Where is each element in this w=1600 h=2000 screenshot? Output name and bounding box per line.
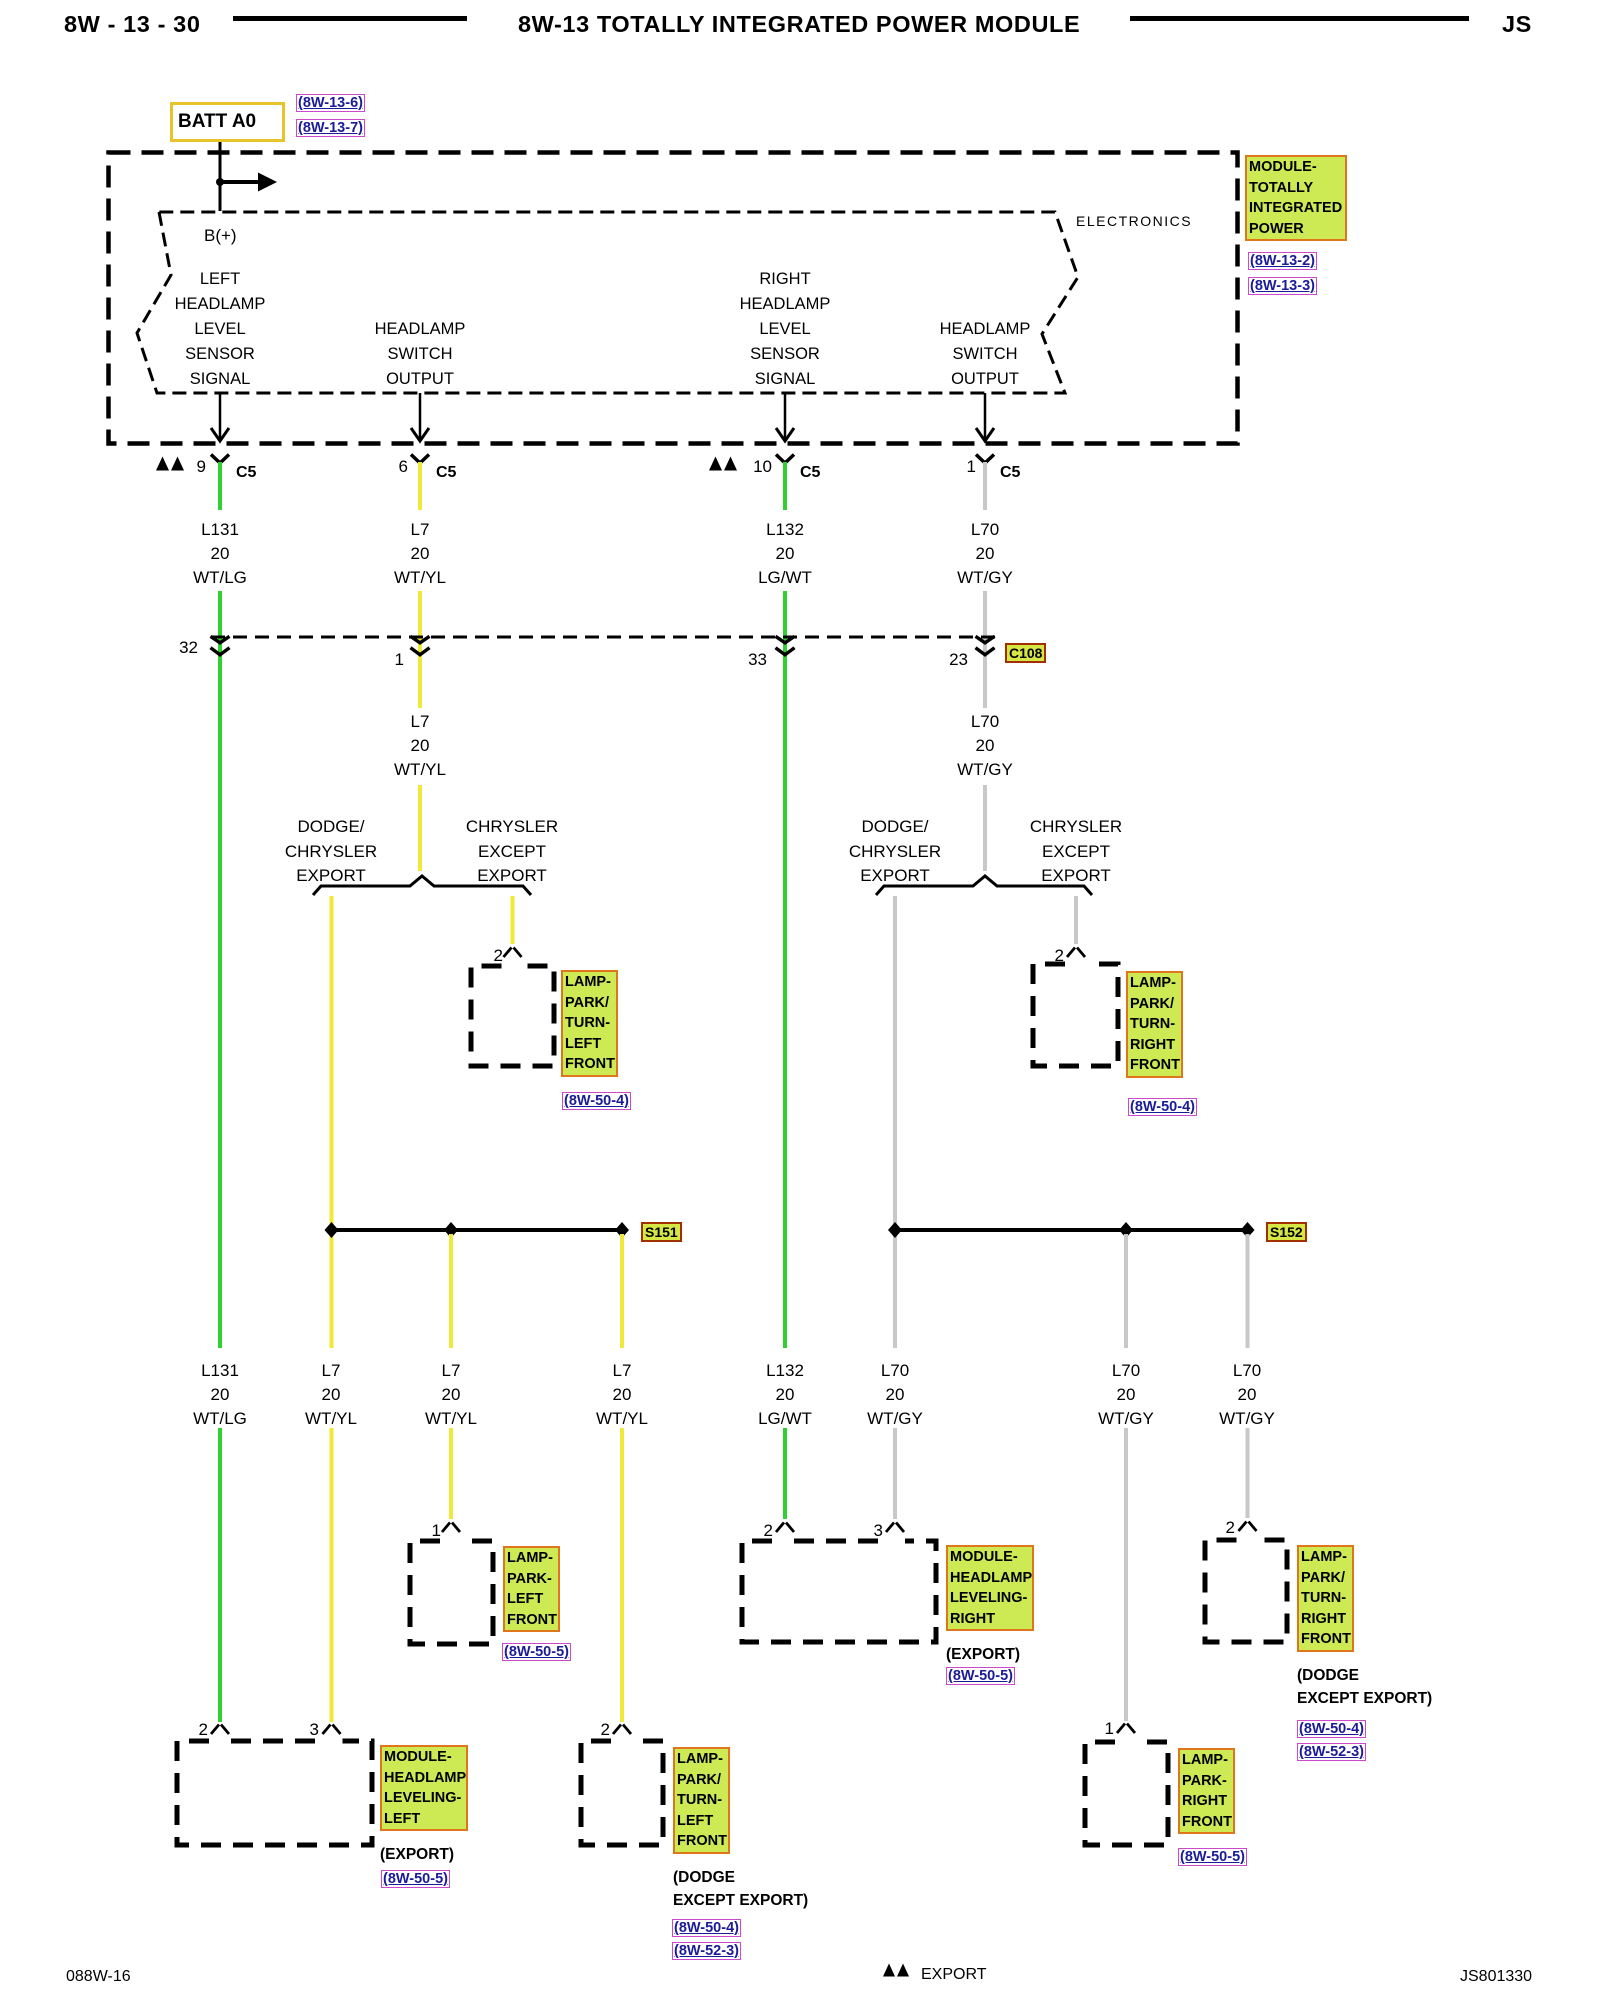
wire label L70 20 WT/GY splice leg 2 xyxy=(1066,1359,1186,1431)
wire L7 to S151 splice leg 2 xyxy=(449,1234,453,1519)
footer sheet number xyxy=(66,1968,131,1986)
header rule left xyxy=(233,16,467,21)
connector C108 label xyxy=(1005,643,1046,663)
dodge except export note right xyxy=(1297,1664,1432,1710)
TIPM inner function dashed outline xyxy=(137,212,1078,393)
connector chevron pin 3 module headlamp leveling left xyxy=(323,1725,341,1735)
wire label L131 20 WT/LG top xyxy=(160,518,280,590)
lamp park left front label xyxy=(503,1546,560,1632)
pin 2 number lamp park turn left front lower xyxy=(570,1720,610,1740)
wire label L70 20 WT/GY mid xyxy=(925,710,1045,782)
wire label L70 20 WT/GY top xyxy=(925,518,1045,590)
connector C5 pin 9 Y symbol xyxy=(211,455,229,464)
internal output arrow pin 9 xyxy=(211,393,229,441)
internal output arrow pin 6 xyxy=(411,393,429,441)
wire label L7 20 WT/YL splice leg 3 xyxy=(562,1359,682,1431)
header rule right xyxy=(1130,16,1469,21)
wire L7 WT/YL dodge branch xyxy=(330,896,334,1722)
link 8W-50-4 lower right xyxy=(1297,1720,1366,1738)
footer export legend xyxy=(921,1966,987,1984)
pin 1 number lamp park right front xyxy=(1074,1719,1114,1739)
wire label L132 20 LG/WT bottom xyxy=(725,1359,845,1431)
pin 3 number module headlamp leveling left xyxy=(279,1720,319,1740)
C108 pass-through chevrons pin 23 xyxy=(976,636,995,655)
node B(+) label xyxy=(204,226,237,246)
connector chevron pin 1 lamp park left front xyxy=(442,1523,460,1533)
heading code JS xyxy=(1502,11,1532,38)
connector chevron pin 2 lamp park turn right front xyxy=(1067,948,1085,958)
splice S151 junction diamond 1 xyxy=(325,1222,339,1238)
link 8W-50-4 lower left xyxy=(672,1919,741,1937)
C108 pass-through chevrons pin 33 xyxy=(776,636,795,655)
splice S151 bus line xyxy=(332,1228,623,1232)
splice S152 junction diamond 1 xyxy=(888,1222,902,1238)
junction node on B(+) wire xyxy=(216,178,224,186)
wire label L70 20 WT/GY splice leg 3 xyxy=(1187,1359,1307,1431)
connector C108 dashed line xyxy=(211,636,1000,639)
module totally integrated power label xyxy=(1245,155,1347,241)
link 8W-52-3 lower left xyxy=(672,1942,741,1960)
connector C5 pin 10 Y symbol xyxy=(776,455,794,464)
wire label L131 20 WT/LG bottom xyxy=(160,1359,280,1431)
chrysler except export branch label right xyxy=(1011,815,1141,889)
connector chevron pin 2 lamp park turn left front xyxy=(504,948,522,958)
pin 2 number module headlamp leveling left xyxy=(168,1720,208,1740)
battery feed BATT A0 box xyxy=(170,102,285,142)
module headlamp leveling right dashed box xyxy=(742,1541,936,1642)
right headlamp level sensor signal pin label xyxy=(705,267,865,392)
ELECTRONICS label xyxy=(1076,213,1192,229)
connector C5 label pin 10 xyxy=(800,464,820,482)
lamp park right front dashed box xyxy=(1085,1742,1168,1845)
wire label L7 20 WT/YL splice leg 2 xyxy=(391,1359,511,1431)
link 8W-13-7 xyxy=(296,119,365,137)
pin 2 number lamp park turn right front lower xyxy=(1195,1518,1235,1538)
C108 pin 1 number xyxy=(364,650,404,670)
wire label L7 20 WT/YL splice leg 1 xyxy=(271,1359,391,1431)
connector chevron pin 2 lamp park turn left front lower xyxy=(613,1725,631,1735)
splice S152 label xyxy=(1266,1222,1307,1242)
link 8W-50-5 module left xyxy=(381,1870,450,1888)
headlamp switch output pin label left xyxy=(340,317,500,392)
connector C5 pin 1 Y symbol xyxy=(976,455,994,464)
pin 1 number xyxy=(936,457,976,477)
dodge chrysler export branch label right xyxy=(830,815,960,889)
link 8W-50-5 module right xyxy=(946,1667,1015,1685)
arrow B(+) feed right xyxy=(220,173,277,192)
footer export marker triangles xyxy=(883,1964,909,1977)
module headlamp leveling right label xyxy=(946,1545,1034,1631)
wire L7 WT/YL chrysler branch xyxy=(511,896,515,944)
lamp park turn right front dashed box xyxy=(1033,964,1118,1066)
lamp park turn left front label xyxy=(561,970,618,1077)
wire L7 WT/YL upper segment xyxy=(418,462,422,871)
wire L70 to S152 splice leg 3 xyxy=(1246,1234,1250,1518)
export marker triangles at pin 9 xyxy=(156,457,184,471)
dodge chrysler export branch label left xyxy=(266,815,396,889)
connector chevron pin 3 module headlamp leveling right xyxy=(886,1523,904,1533)
connector chevron pin 1 lamp park right front xyxy=(1117,1724,1135,1734)
internal output arrow pin 10 xyxy=(776,393,794,441)
wire BATT A0 to TIPM B(+) xyxy=(219,142,222,211)
lamp park left front dashed box xyxy=(410,1541,493,1644)
left headlamp level sensor signal pin label xyxy=(140,267,300,392)
wire L132 LG/WT segment xyxy=(783,462,787,1519)
C108 pin 23 number xyxy=(928,650,968,670)
wire L7 to S151 splice leg 3 xyxy=(620,1234,624,1722)
wire label L132 20 LG/WT top xyxy=(725,518,845,590)
C108 pass-through chevrons pin 32 xyxy=(211,636,230,655)
C108 pass-through chevrons pin 1 xyxy=(411,636,430,655)
page number heading xyxy=(64,11,201,38)
link 8W-13-6 xyxy=(296,94,365,112)
wire L70 WT/GY upper segment xyxy=(983,462,987,871)
link 8W-50-5 lamp park left front xyxy=(502,1643,571,1661)
headlamp switch output pin label right xyxy=(905,317,1065,392)
pin 10 number xyxy=(732,457,772,477)
pin 1 number lamp park left front xyxy=(401,1521,441,1541)
splice S151 label xyxy=(641,1222,682,1242)
module headlamp leveling left label xyxy=(380,1745,468,1831)
splice S152 bus line xyxy=(895,1228,1248,1232)
link 8W-52-3 lower right xyxy=(1297,1743,1366,1761)
module headlamp leveling left dashed box xyxy=(177,1741,372,1845)
wire label L70 20 WT/GY splice leg 1 xyxy=(835,1359,955,1431)
brace split of wire L7 xyxy=(313,876,531,895)
link 8W-13-2 xyxy=(1248,252,1317,270)
connector C5 label pin 6 xyxy=(436,464,456,482)
lamp park turn right front lower dashed box xyxy=(1205,1540,1287,1642)
wire L70 WT/GY chrysler branch xyxy=(1074,896,1078,944)
pin 2 number module headlamp leveling right xyxy=(733,1521,773,1541)
lamp park turn right front lower label xyxy=(1297,1545,1354,1652)
module TIPM outer dashed box xyxy=(109,153,1238,444)
internal output arrow pin 1 xyxy=(976,393,994,441)
wire L131 WT/LG upper segment xyxy=(218,462,222,1722)
link 8W-50-4 upper left xyxy=(562,1092,631,1110)
C108 pin 33 number xyxy=(727,650,767,670)
splice S152 junction diamond 3 xyxy=(1241,1222,1255,1238)
link 8W-50-5 lamp park right front xyxy=(1178,1848,1247,1866)
connector chevron pin 2 module headlamp leveling left xyxy=(211,1725,229,1735)
pin 9 number xyxy=(166,457,206,477)
footer drawing number xyxy=(1460,1968,1532,1986)
export marker triangles at pin 10 xyxy=(709,457,737,471)
connector chevron pin 2 module headlamp leveling right xyxy=(776,1523,794,1533)
splice S152 junction diamond 2 xyxy=(1119,1222,1133,1238)
dodge except export note left xyxy=(673,1866,808,1912)
connector C5 label pin 9 xyxy=(236,464,256,482)
connector C5 label pin 1 xyxy=(1000,464,1020,482)
link 8W-13-3 xyxy=(1248,277,1317,295)
wire label L7 20 WT/YL mid xyxy=(360,710,480,782)
wire L70 WT/GY dodge branch xyxy=(893,896,897,1519)
C108 pin 32 number xyxy=(158,638,198,658)
chrysler except export branch label left xyxy=(447,815,577,889)
lamp park turn left front lower label xyxy=(673,1747,730,1854)
splice S151 junction diamond 3 xyxy=(615,1222,629,1238)
export note module left xyxy=(380,1846,454,1864)
pin 6 number xyxy=(368,457,408,477)
brace split of wire L70 xyxy=(876,876,1092,895)
pin 2 number lamp park turn left front xyxy=(463,946,503,966)
lamp park turn left front dashed box xyxy=(471,966,554,1066)
lamp park turn left front lower dashed box xyxy=(581,1741,663,1845)
wire L70 to S152 splice leg 2 xyxy=(1124,1234,1128,1721)
splice S151 junction diamond 2 xyxy=(444,1222,458,1238)
connector C5 pin 6 Y symbol xyxy=(411,455,429,464)
connector chevron pin 2 lamp park turn right front lower xyxy=(1239,1522,1257,1532)
lamp park right front label xyxy=(1178,1748,1235,1834)
pin 2 number lamp park turn right front xyxy=(1024,946,1064,966)
page title heading xyxy=(518,11,1080,38)
wire label L7 20 WT/YL top xyxy=(360,518,480,590)
lamp park turn right front label xyxy=(1126,971,1183,1078)
pin 3 number module headlamp leveling right xyxy=(843,1521,883,1541)
link 8W-50-4 upper right xyxy=(1128,1098,1197,1116)
export note module right xyxy=(946,1646,1020,1664)
